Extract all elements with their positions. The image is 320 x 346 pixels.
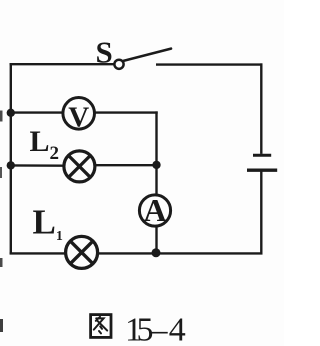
switch S <box>114 49 171 69</box>
junction dot left L2 branch <box>7 161 15 169</box>
voltmeter V <box>63 98 95 134</box>
lamp L1 <box>66 236 98 268</box>
junction dot left voltmeter branch <box>7 109 15 117</box>
ammeter A <box>139 192 170 228</box>
wire bottom-right segment <box>97 252 263 254</box>
wire voltmeter branch right <box>95 111 158 113</box>
wire middle vertical upper <box>155 111 157 195</box>
wire L2 branch left <box>10 164 64 167</box>
svg-text:V: V <box>68 101 89 133</box>
wire bottom-left segment <box>10 252 66 254</box>
wire L2 branch right <box>96 164 158 166</box>
lamp L2 <box>64 151 95 182</box>
wire top-right segment <box>156 63 262 65</box>
caption 图 15-4 <box>91 312 186 346</box>
wire middle vertical lower <box>155 226 157 254</box>
svg-text:15–4: 15–4 <box>125 312 186 346</box>
junction dot middle L2 branch <box>152 161 160 169</box>
wire right vertical lower <box>260 170 262 254</box>
svg-text:S: S <box>96 35 113 70</box>
wire left vertical <box>10 63 12 254</box>
wire top-left segment <box>10 63 115 65</box>
battery <box>247 155 277 170</box>
wire voltmeter branch left <box>10 111 63 113</box>
svg-text:A: A <box>143 192 166 228</box>
wire right vertical upper <box>260 63 262 153</box>
junction dot middle bottom wire <box>152 248 161 257</box>
